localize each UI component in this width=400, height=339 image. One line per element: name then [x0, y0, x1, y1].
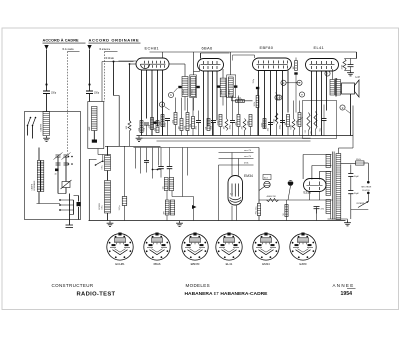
capacitor C33 [234, 85, 237, 87]
coil L1 cadre [43, 112, 50, 136]
tube socket EBF80 [182, 233, 208, 261]
svg-text:EBF80: EBF80 [191, 262, 200, 266]
ground tone [350, 71, 352, 73]
capacitor C32 [217, 85, 220, 87]
svg-text:470: 470 [163, 211, 165, 214]
resistor R11 [219, 115, 222, 127]
wire coupling link [98, 154, 111, 156]
svg-text:100p: 100p [165, 122, 167, 128]
svg-text:2M: 2M [242, 126, 244, 129]
trimmer capacitors row 1 [56, 154, 61, 156]
svg-text:CADRE: CADRE [31, 183, 34, 190]
capacitor C10 [211, 120, 216, 122]
capacitor antenna 1 [46, 85, 48, 92]
padder pair B [165, 200, 169, 215]
pins ECH81 [141, 70, 143, 136]
frame output stage [303, 101, 337, 139]
capacitor C8 [165, 118, 170, 120]
capacitor C16 [144, 160, 149, 162]
wire grid feed [101, 62, 103, 102]
svg-text:100k: 100k [221, 90, 223, 94]
capacitor C51 50uF [348, 190, 353, 192]
capacitor C13 [280, 120, 285, 122]
AVC wire 6BA6 [200, 53, 202, 59]
wire EZ80 plate bracket 2 [311, 166, 313, 180]
svg-text:fil antenne: fil antenne [100, 48, 111, 51]
transformer power TR2 [326, 155, 331, 168]
point a [159, 102, 164, 107]
wire switch [367, 194, 369, 202]
ground rail mid [179, 221, 181, 223]
resistor R5 [161, 115, 164, 127]
wire right comb [182, 148, 184, 197]
coil L3 antenna [92, 107, 98, 131]
svg-text:1M: 1M [285, 122, 287, 125]
resistor R2 [140, 121, 143, 133]
resistor R24 [314, 112, 317, 130]
svg-text:70Ω 1/2w: 70Ω 1/2w [256, 206, 258, 215]
resistor R35 [257, 89, 259, 95]
wire transformer bottom [328, 218, 348, 220]
wire taps [59, 199, 61, 201]
frame antenna coil [88, 102, 104, 149]
switch S2 wave change [96, 161, 103, 165]
capacitor C50 50uF [350, 165, 352, 174]
capacitor C21 47n [316, 207, 318, 214]
capacitor C5 [66, 224, 74, 226]
resistor R3 [151, 118, 154, 130]
point d [281, 80, 286, 85]
tube socket ECH81 [107, 233, 133, 261]
svg-text:50µF: 50µF [354, 176, 360, 178]
svg-text:100k: 100k [183, 90, 185, 94]
pins EBF80 [258, 71, 260, 136]
switch S1 contacts [28, 118, 31, 126]
svg-text:4n: 4n [55, 174, 57, 176]
wire vers CV 1 [219, 152, 254, 154]
point e [299, 92, 304, 97]
wire bus end [352, 106, 354, 136]
lamp LP2 [288, 180, 294, 186]
svg-text:6BA6: 6BA6 [202, 46, 213, 51]
svg-text:470k: 470k [192, 90, 194, 94]
svg-text:150p: 150p [51, 93, 57, 95]
ground cadre coil [46, 136, 48, 138]
resistor R21 detector [295, 61, 298, 71]
point e2 [277, 95, 282, 100]
svg-text:H.P.: H.P. [356, 75, 361, 79]
svg-text:100p: 100p [230, 124, 232, 130]
AVC line [141, 137, 311, 139]
resistor R19 [287, 115, 290, 127]
svg-text:1M: 1M [179, 126, 181, 129]
svg-text:SECTEUR: SECTEUR [361, 187, 371, 189]
svg-text:EL41: EL41 [314, 45, 325, 50]
resistor R18 [275, 113, 278, 125]
wire EZ80 heater bracket 3 [318, 172, 320, 180]
svg-text:100k: 100k [254, 102, 256, 106]
resistor R12 [225, 119, 228, 131]
wire [69, 194, 71, 220]
svg-text:fil du cadre: fil du cadre [63, 48, 75, 51]
resistor R27 [286, 200, 288, 221]
ground bus middle [138, 136, 140, 138]
point c [275, 95, 280, 100]
variable capacitor CV1 [62, 182, 70, 188]
tube socket EM34 [253, 233, 279, 261]
resistor R10 [207, 119, 210, 131]
svg-text:CADRE: CADRE [40, 123, 43, 131]
capacitor C15 [322, 118, 327, 120]
svg-text:fil blindé: fil blindé [106, 58, 115, 60]
svg-text:ACCORD À CADRE: ACCORD À CADRE [43, 38, 80, 43]
wire tuning [57, 157, 59, 194]
trimmer capacitors row 2 [56, 162, 61, 164]
coil L2 oscillator [37, 161, 40, 192]
wire mains fuse [341, 163, 356, 165]
wire EZ80 plate bracket 1 [302, 155, 304, 180]
heater line [259, 199, 333, 201]
ground transformer [347, 221, 349, 223]
svg-text:CONSTRUCTEUR: CONSTRUCTEUR [52, 283, 94, 288]
svg-text:150p: 150p [94, 93, 100, 95]
pins EZ80 [309, 192, 311, 201]
resistor R7 [180, 119, 183, 131]
antenna input 2 (ordinaire) [87, 45, 91, 50]
wire coupling to EBF80 grid [233, 54, 255, 56]
svg-text:ANT.: ANT. [88, 126, 91, 131]
capacitor C7 [144, 122, 149, 124]
svg-text:12p: 12p [162, 186, 164, 189]
AVC line 2 [157, 140, 311, 142]
svg-text:EZ80: EZ80 [300, 262, 307, 266]
capacitor C18 electrolytic [122, 197, 127, 206]
wire vers CV 2 [219, 158, 254, 160]
svg-text:MODELES: MODELES [186, 283, 210, 288]
wire B+ top [229, 52, 231, 75]
wire coupling to 6BA6 grid [194, 71, 200, 73]
tube socket 6BA6 [144, 233, 170, 261]
padder pair A [164, 178, 168, 191]
resistor R8 [186, 113, 189, 131]
diode mark EM34 [192, 205, 197, 209]
potentiometer volume [298, 113, 301, 127]
antenna input 1 (cadre) [44, 45, 48, 50]
svg-text:ACCORD ORDINAIRE: ACCORD ORDINAIRE [89, 38, 140, 43]
svg-text:OSC.: OSC. [101, 164, 103, 169]
tube socket EL41 [216, 233, 242, 261]
resistor R9 [192, 117, 195, 129]
wire osc comb [135, 148, 137, 169]
capacitor C31 [196, 86, 199, 88]
chassis bus [137, 135, 354, 137]
capacitor C12 [268, 122, 273, 124]
wire speaker return [350, 94, 352, 136]
resistor R23 [307, 113, 310, 131]
wire mains right [364, 162, 368, 164]
capacitor padder [77, 202, 81, 206]
plug secteur [367, 181, 370, 184]
wire transformer top [338, 148, 340, 154]
oscillator line [134, 147, 260, 149]
capacitor pair oscillator [158, 166, 164, 168]
point m [325, 71, 330, 76]
resistor R4 [156, 121, 159, 133]
svg-text:ECH81: ECH81 [145, 46, 160, 51]
resistor R1 [128, 121, 131, 132]
lamp LP1 [263, 175, 271, 180]
svg-text:470k: 470k [244, 163, 248, 165]
frame oscillator box [89, 158, 96, 160]
pins 6BA6 [203, 71, 205, 136]
svg-text:vers CV: vers CV [244, 156, 252, 158]
resistor R32 [220, 78, 226, 97]
svg-text:100p: 100p [280, 124, 282, 130]
svg-text:1M: 1M [293, 66, 295, 69]
svg-text:470: 470 [167, 186, 169, 189]
resistor R15 [249, 115, 252, 127]
wire B+ left [150, 51, 231, 53]
capacitor antenna 2 [89, 85, 91, 92]
svg-text:12,5µ: 12,5µ [119, 205, 121, 211]
svg-text:vers CV: vers CV [244, 150, 252, 152]
svg-text:FUS.: FUS. [356, 159, 361, 161]
svg-text:HABANERA ET HABANERA-CADRE: HABANERA ET HABANERA-CADRE [185, 291, 269, 297]
wire third [219, 164, 254, 166]
svg-text:110/220: 110/220 [362, 190, 370, 192]
transformer output TR1 [330, 80, 335, 96]
wire screen grid [113, 61, 115, 96]
capacitor C6 antenna box [92, 140, 97, 143]
resistor R33 (IF can) [227, 75, 236, 98]
ground rail left [109, 221, 111, 223]
resistor R22 tone [343, 59, 346, 71]
pins EL41 [311, 71, 313, 136]
point m2 [297, 80, 302, 85]
capacitor C40 [55, 169, 59, 172]
junction dots [68, 156, 70, 158]
wire tone feedback [356, 52, 358, 59]
resistor R16 horizontal [236, 100, 245, 103]
svg-text:400Ω 1W: 400Ω 1W [267, 196, 277, 198]
bus bottom rail [89, 220, 346, 222]
svg-text:6BA6: 6BA6 [153, 262, 160, 266]
capacitor C30 [178, 86, 181, 88]
svg-text:50µF: 50µF [354, 193, 360, 195]
capacitor C35 [294, 72, 297, 74]
wire lamp drops [259, 187, 265, 191]
wire padder [166, 191, 168, 201]
svg-text:EBF80: EBF80 [260, 45, 274, 50]
svg-text:470k: 470k [229, 90, 231, 94]
svg-text:EL41: EL41 [226, 262, 233, 266]
capacitor C34 [256, 87, 259, 89]
coil L4a oscillator primary [105, 156, 111, 171]
svg-text:RADIO-TEST: RADIO-TEST [77, 291, 116, 297]
resistor R20 [292, 119, 295, 131]
capacitor C41 [153, 122, 156, 124]
resistor R13 [237, 115, 240, 127]
wire plate 6BA6 to coupling [222, 69, 224, 78]
coil L4b oscillator secondary [105, 181, 111, 214]
connector line [105, 145, 161, 147]
svg-text:12p: 12p [168, 211, 170, 214]
capacitor C9 [196, 120, 201, 122]
point b [168, 92, 173, 97]
svg-text:470k: 470k [238, 99, 242, 101]
fuse F1 [356, 161, 365, 165]
frame tuning assembly (cadre) [25, 112, 81, 220]
svg-text:EM34: EM34 [244, 174, 253, 178]
resistor R17 [263, 119, 266, 129]
resistor R30 [182, 77, 188, 97]
resistor R25 [257, 204, 260, 216]
resistor R14 [243, 119, 246, 131]
tube socket EZ80 [290, 233, 316, 261]
svg-text:OSC.: OSC. [101, 204, 103, 209]
resistor R26 400ohm [267, 198, 279, 201]
point g [340, 105, 345, 110]
svg-text:1954: 1954 [341, 291, 353, 297]
svg-text:EM34: EM34 [262, 262, 270, 266]
svg-text:1M: 1M [224, 126, 226, 129]
capacitor C11 [230, 120, 235, 122]
svg-text:ANNEE: ANNEE [333, 283, 355, 288]
wire plate to coupling [169, 63, 185, 65]
resistor R31 (IF can) [190, 75, 197, 98]
svg-text:ECH81: ECH81 [115, 262, 125, 266]
pins EM34 [231, 153, 233, 176]
resistor R6 [174, 113, 177, 125]
capacitor C14 tone [350, 59, 352, 65]
